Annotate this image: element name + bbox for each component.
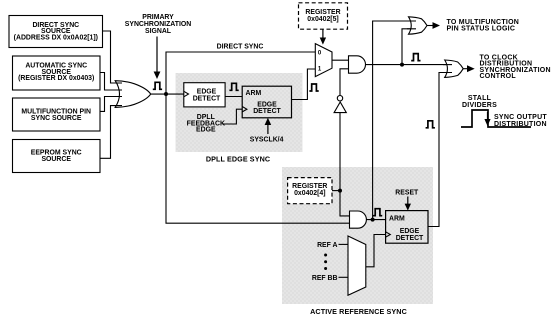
wire mux2 output to ARM2 input xyxy=(366,235,386,267)
svg-text:ACTIVE REFERENCE SYNC: ACTIVE REFERENCE SYNC xyxy=(310,307,407,316)
pulse symbol at AND2 output xyxy=(373,209,382,216)
wire REF BB to mux2 xyxy=(339,276,349,278)
svg-text:DETECT: DETECT xyxy=(396,235,424,242)
OR gate G2 to multifunction xyxy=(409,17,428,34)
svg-text:DETECT: DETECT xyxy=(193,95,221,102)
junction node AND1 output xyxy=(400,63,404,67)
wire node to inverter input xyxy=(339,113,341,191)
pulse symbol after edge detect xyxy=(229,83,238,90)
svg-text:SYSCLK/4: SYSCLK/4 xyxy=(250,136,284,143)
pulse symbol on ARM2 output riser xyxy=(426,121,435,128)
arrow primary sync signal xyxy=(156,37,158,73)
wire junction to OR gate G2 top input xyxy=(402,29,416,65)
svg-text:(REGISTER DX 0x0403): (REGISTER DX 0x0403) xyxy=(18,75,94,82)
wire ARM dpll output to mux input 1 xyxy=(292,69,316,100)
svg-text:REGISTER: REGISTER xyxy=(292,183,327,190)
svg-text:DETECT: DETECT xyxy=(253,108,281,115)
arrow register 0x0402[5] to mux select xyxy=(322,29,324,38)
label DPLL FEEDBACK EDGE xyxy=(187,114,225,134)
label STALL DIVIDERS xyxy=(462,95,497,109)
svg-text:REF BB: REF BB xyxy=(312,275,338,282)
shaded region ACTIVE REFERENCE SYNC xyxy=(282,167,433,304)
block AUTOMATIC SYNC SOURCE xyxy=(13,56,101,90)
svg-text:REF A: REF A xyxy=(317,242,337,249)
arrow sysclk/4 into ARM xyxy=(267,125,269,135)
wire AND2 output to ARM2 xyxy=(366,219,385,221)
arrow G3 output xyxy=(463,68,467,70)
svg-text:CONTROL: CONTROL xyxy=(480,73,517,80)
label TO CLOCK DISTRIBUTION SYNCHRONIZATION CONTROL xyxy=(480,54,551,80)
wire stubs into OR gate G1 xyxy=(112,83,122,106)
svg-text:0x0402[5]: 0x0402[5] xyxy=(307,16,338,23)
OR gate G1 source combiner xyxy=(115,81,151,108)
inverter N1 xyxy=(334,96,346,113)
svg-text:(ADDRESS DX 0x0A02[1]): (ADDRESS DX 0x0A02[1]) xyxy=(14,35,98,42)
block DIRECT SYNC SOURCE xyxy=(9,16,103,48)
waveform stall dividers xyxy=(461,110,531,127)
wire box1 to OR gate input 1 xyxy=(103,31,123,83)
wire OR output to junction xyxy=(151,93,184,95)
svg-text:RESET: RESET xyxy=(395,190,419,197)
wire stubs into OR gate G2 xyxy=(407,21,416,29)
wire register 0402[4] to node xyxy=(332,190,340,192)
junction node register 0402[4] xyxy=(338,189,342,193)
arrow reset into ARM2 xyxy=(407,197,409,205)
label TO MULTIFUNCTION PIN STATUS LOGIC xyxy=(447,19,520,32)
junction node primary sync xyxy=(164,92,168,96)
wire direct sync to mux input 0 xyxy=(166,52,315,94)
block EDGE DETECT (DPLL) xyxy=(184,83,225,107)
svg-text:DPLL EDGE SYNC: DPLL EDGE SYNC xyxy=(206,155,270,164)
register REGISTER 0x0402[4] xyxy=(288,178,332,204)
wire box2 to OR gate input 2 xyxy=(100,73,122,91)
svg-text:PIN STATUS LOGIC: PIN STATUS LOGIC xyxy=(447,25,516,32)
wire dpll feedback edge to ARM xyxy=(222,109,242,124)
block MULTIFUNCTION PIN SYNC SOURCE xyxy=(13,98,101,131)
OR gate G3 to clock distribution xyxy=(445,60,464,77)
svg-text:SOURCE: SOURCE xyxy=(41,156,71,163)
svg-text:REGISTER: REGISTER xyxy=(305,9,340,16)
wire active AND output riser to OR gate G2 xyxy=(373,21,416,220)
AND gate A1 xyxy=(349,56,366,73)
pulse symbol at OR output xyxy=(153,82,162,89)
wire box3 to OR gate input 3 xyxy=(100,97,122,112)
wire edge detect to ARM box xyxy=(225,96,242,98)
block ARM EDGE DETECT (DPLL) xyxy=(242,86,291,118)
wire node to active AND input xyxy=(340,191,350,216)
register REGISTER 0x0402[5] xyxy=(299,3,348,29)
junction node AND2 output xyxy=(371,218,375,222)
svg-text:SIGNAL: SIGNAL xyxy=(145,28,171,35)
pulse symbol on dpll arm output xyxy=(309,84,318,91)
svg-text:SYNC OUTPUT: SYNC OUTPUT xyxy=(494,114,547,121)
svg-text:ARM: ARM xyxy=(389,215,405,222)
svg-text:DIRECT SYNC: DIRECT SYNC xyxy=(217,43,264,50)
svg-text:DISTRIBUTION: DISTRIBUTION xyxy=(494,121,547,128)
wire ARM2 output to OR gate G3 xyxy=(428,73,452,227)
svg-text:EDGE: EDGE xyxy=(196,127,216,134)
svg-text:DIVIDERS: DIVIDERS xyxy=(462,102,497,109)
block ARM EDGE DETECT active reference xyxy=(386,211,428,244)
AND gate A2 active reference xyxy=(350,211,367,228)
arrow G2 output xyxy=(427,25,433,27)
svg-text:SYNC SOURCE: SYNC SOURCE xyxy=(31,115,82,122)
arrow sync output distribution xyxy=(487,112,489,119)
wire long bus to active reference AND gate xyxy=(166,94,350,223)
wire AND1 output to junction xyxy=(366,64,452,66)
wire stub into OR gate G3 xyxy=(443,64,452,66)
label SYNC OUTPUT DISTRIBUTION xyxy=(494,114,547,128)
mux U1 sync select xyxy=(315,44,332,77)
svg-text:ARM: ARM xyxy=(246,90,262,97)
svg-text:0x0402[4]: 0x0402[4] xyxy=(294,190,325,197)
pulse symbol after AND1 xyxy=(411,54,420,61)
dots reference inputs xyxy=(324,254,327,271)
mux U2 reference select xyxy=(348,236,366,295)
wire box4 to OR gate input 4 xyxy=(100,106,122,159)
wire inverter to AND1 input xyxy=(340,69,349,96)
wire mux output to AND1 xyxy=(332,59,349,61)
shaded region DPLL EDGE SYNC xyxy=(176,73,303,152)
block EEPROM SYNC SOURCE xyxy=(13,140,101,173)
wire REF A to mux2 xyxy=(339,243,349,245)
label PRIMARY SYNCHRONIZATION SIGNAL xyxy=(125,14,192,35)
